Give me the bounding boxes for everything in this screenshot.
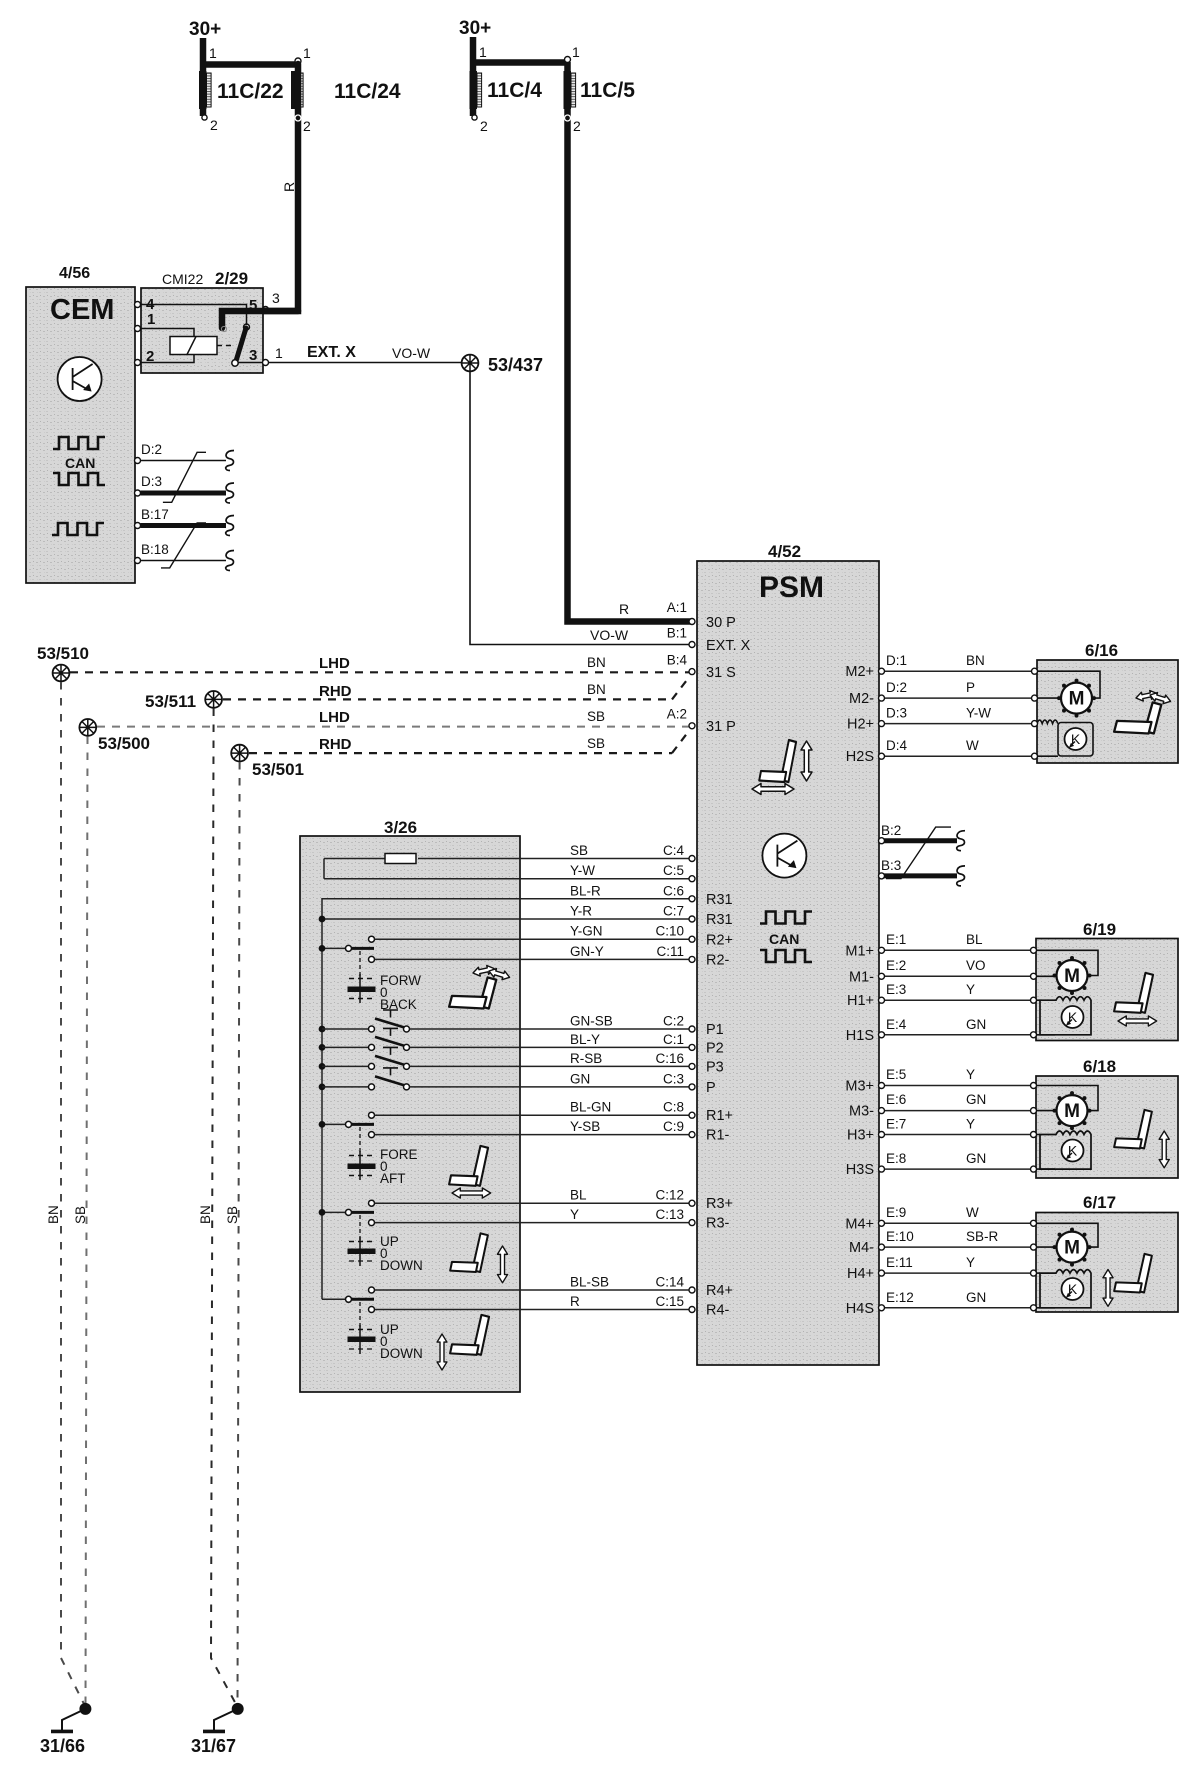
svg-text:EXT. X: EXT. X [706, 638, 751, 654]
relay pin 3 circle on right edge [263, 360, 269, 366]
svg-text:B:17: B:17 [141, 507, 169, 522]
svg-text:E:2: E:2 [886, 958, 906, 973]
tilt switch contact C:14 [369, 1287, 375, 1293]
svg-text:E:11: E:11 [886, 1255, 913, 1270]
wire LHD BN from splice 53/510 to PSM pin B:4 (dashed) [70, 671, 689, 673]
wire RHD BN from splice 53/511 toward PSM pin B:4 (dashed) [223, 676, 690, 699]
resistor inside 3/26 [385, 854, 416, 864]
pin 1 of fuse 11C/5 [565, 57, 571, 63]
thermal cut-out K of 6/17 [1040, 1270, 1091, 1308]
wire from CEM D:3 (thick stub) [141, 491, 227, 496]
svg-text:C:7: C:7 [663, 904, 684, 919]
svg-text:53/510: 53/510 [37, 644, 89, 663]
wire break curl D:2 [226, 451, 234, 471]
svg-text:30+: 30+ [459, 18, 491, 39]
wire LHD SB from splice 53/500 to PSM pin A:2 (dashed, faint) [97, 726, 689, 728]
wire C:5 colour Y-W [324, 859, 689, 879]
svg-text:D:4: D:4 [886, 738, 908, 753]
svg-text:A:1: A:1 [667, 600, 687, 615]
svg-text:2/29: 2/29 [215, 269, 248, 288]
wires PSM to motor 6/19: E:1 BL, E:2 VO, E:3 Y, E:4 GN [885, 950, 1031, 1035]
svg-text:11C/22: 11C/22 [217, 80, 284, 103]
wire from fuse 11C/24 down to relay 2/29, colour R [222, 64, 298, 328]
svg-text:C:1: C:1 [663, 1032, 684, 1047]
svg-text:GN: GN [966, 1017, 986, 1032]
svg-text:GN: GN [966, 1151, 986, 1166]
svg-text:C:4: C:4 [663, 843, 685, 858]
svg-text:B:3: B:3 [881, 858, 901, 873]
svg-text:Y: Y [966, 982, 975, 997]
wire 30+ feed down to fuses 11C/4 and 11C/5 [470, 37, 568, 116]
svg-text:53/437: 53/437 [488, 355, 543, 375]
wire C:2 colour GN-SB [410, 1028, 690, 1030]
fuse 11C/22 [199, 71, 207, 109]
wires PSM to motor 6/17: E:9 W, E:10 SB-R, E:11 Y, E:12 GN [885, 1223, 1031, 1308]
seat icon of 6/18 with up/down arrow [1114, 1110, 1152, 1149]
pin 2 of fuse 11C/5 [565, 115, 571, 121]
svg-text:CAN: CAN [65, 455, 95, 471]
svg-text:M1+: M1+ [845, 944, 874, 960]
svg-text:BL-GN: BL-GN [570, 1100, 611, 1115]
svg-text:H1+: H1+ [847, 993, 874, 1009]
PSM left pin circles (C rows) [689, 856, 695, 1313]
svg-text:E:10: E:10 [886, 1229, 914, 1244]
fore/aft switch contact C:9 [369, 1132, 375, 1138]
svg-text:GN: GN [966, 1092, 986, 1107]
svg-text:C:16: C:16 [655, 1051, 684, 1066]
CEM pin D:2 [135, 458, 141, 464]
tilt switch contact C:15 [369, 1307, 375, 1313]
svg-text:M1-: M1- [849, 970, 874, 986]
wire C:7 colour Y-R [322, 918, 689, 920]
tilt selector UP/0/DOWN [359, 1302, 361, 1330]
svg-text:P3: P3 [706, 1060, 724, 1076]
svg-text:1: 1 [303, 45, 311, 61]
svg-text:M4-: M4- [849, 1240, 874, 1256]
svg-text:VO-W: VO-W [392, 345, 431, 361]
svg-text:E:4: E:4 [886, 1017, 907, 1032]
svg-text:B:4: B:4 [667, 653, 688, 668]
svg-text:4/56: 4/56 [59, 265, 90, 282]
svg-text:R4+: R4+ [706, 1283, 733, 1299]
seat icon with up/down arrow (tilt) [450, 1315, 489, 1355]
svg-text:R1-: R1- [706, 1128, 730, 1144]
svg-text:1: 1 [572, 44, 580, 60]
svg-text:6/19: 6/19 [1083, 920, 1116, 939]
transistor symbol inside CEM [58, 357, 102, 401]
svg-text:53/511: 53/511 [145, 692, 196, 711]
svg-text:E:5: E:5 [886, 1067, 906, 1082]
CEM pin B:17 [135, 523, 141, 529]
svg-text:GN-Y: GN-Y [570, 944, 604, 959]
svg-text:H3+: H3+ [847, 1128, 874, 1144]
wire SB down from splice 53/500 to ground 31/66 (dashed, faint) [86, 737, 88, 1707]
thermal cut-out K of 6/16 [1058, 723, 1093, 757]
wire C:8 colour BL-GN [375, 1114, 690, 1116]
fore/aft selector FORE/0/AFT [359, 1127, 361, 1155]
pin 2 of fuse 11C/4 [472, 115, 477, 120]
svg-text:1: 1 [209, 45, 217, 61]
svg-text:1: 1 [147, 311, 155, 328]
splice 53/501 [231, 745, 248, 762]
svg-text:C:14: C:14 [655, 1275, 684, 1290]
pin 2 of fuse 11C/22 [202, 115, 207, 120]
svg-text:C:8: C:8 [663, 1100, 684, 1115]
svg-text:2: 2 [210, 117, 218, 133]
relay switch arm [236, 328, 246, 361]
svg-text:3/26: 3/26 [384, 818, 417, 837]
svg-text:R31: R31 [706, 912, 733, 928]
svg-text:H4+: H4+ [847, 1266, 874, 1282]
wire C:9 colour Y-SB [375, 1134, 690, 1136]
PSM CAN symbol [760, 912, 812, 924]
svg-text:Y: Y [966, 1067, 975, 1082]
svg-text:W: W [966, 1205, 979, 1220]
wire from CEM B:18 (thin stub) [141, 560, 227, 562]
svg-text:R3+: R3+ [706, 1196, 733, 1212]
svg-text:BL: BL [570, 1188, 587, 1203]
wire C:4 colour SB [324, 858, 689, 860]
relay internal wire pin 1 to coil [138, 329, 195, 337]
wire C:11 colour GN-Y [375, 958, 690, 960]
break slash over B:2/B:3 [886, 827, 951, 879]
svg-text:CEM: CEM [50, 294, 114, 326]
svg-text:31 P: 31 P [706, 719, 736, 735]
height switch common feed [322, 1211, 345, 1213]
CEM pin D:3 [135, 490, 141, 496]
svg-text:R3-: R3- [706, 1216, 730, 1232]
svg-text:6/17: 6/17 [1083, 1193, 1116, 1212]
wire break curl D:3 [226, 483, 234, 503]
seat icon with fore/aft arrow [449, 1146, 488, 1186]
break slash over D:2/D:3 [163, 452, 206, 502]
pin circles 6/19 [879, 947, 1037, 1038]
svg-text:GN-SB: GN-SB [570, 1014, 613, 1029]
wire C:13 colour Y [375, 1222, 690, 1224]
svg-text:AFT: AFT [380, 1171, 406, 1186]
svg-text:BN: BN [198, 1205, 213, 1224]
svg-text:PSM: PSM [759, 571, 824, 604]
wire C:10 colour Y-GN [375, 938, 690, 940]
wire 30+ feed down to fuses 11C/22 and 11C/24 [200, 38, 298, 116]
svg-text:30 P: 30 P [706, 615, 736, 631]
seat icon with up/down arrow [450, 1233, 488, 1272]
wire break curl B:17 [226, 516, 234, 536]
recline switch common feed [322, 947, 345, 949]
svg-text:P: P [966, 680, 975, 695]
svg-text:3: 3 [272, 290, 280, 306]
svg-text:R31: R31 [706, 892, 733, 908]
svg-text:6/16: 6/16 [1085, 641, 1118, 660]
svg-text:Y: Y [570, 1207, 579, 1222]
recline switch contact C:11 [369, 956, 375, 962]
svg-text:C:11: C:11 [656, 944, 684, 959]
svg-text:30+: 30+ [189, 19, 221, 40]
svg-text:Y-R: Y-R [570, 904, 592, 919]
svg-text:C:2: C:2 [663, 1014, 684, 1029]
motor M of 6/18 [1053, 1091, 1092, 1130]
svg-text:Y-SB: Y-SB [570, 1119, 600, 1134]
svg-text:R-SB: R-SB [570, 1051, 602, 1066]
svg-text:D:2: D:2 [141, 442, 162, 457]
wire from CEM B:17 (thick stub) [141, 523, 227, 528]
svg-text:DOWN: DOWN [380, 1258, 423, 1273]
svg-text:11C/4: 11C/4 [487, 79, 542, 102]
CAN symbol inside CEM [53, 437, 105, 449]
svg-text:6/18: 6/18 [1083, 1057, 1116, 1076]
svg-text:BL-SB: BL-SB [570, 1275, 609, 1290]
svg-text:B:1: B:1 [667, 626, 687, 641]
relay internal wire from pin 4 to switch pivot [138, 305, 247, 326]
thermal wavy element of 6/17 [1036, 1272, 1040, 1274]
svg-text:C:13: C:13 [655, 1207, 684, 1222]
svg-text:P: P [706, 1080, 716, 1096]
svg-text:E:1: E:1 [886, 932, 906, 947]
svg-text:R2+: R2+ [706, 933, 733, 949]
splice 53/437 [462, 355, 479, 372]
svg-text:CMI22: CMI22 [162, 271, 203, 287]
wire from splice 53/437 down to PSM pin B:1, colour VO-W [470, 372, 689, 645]
wire break curl B:18 [226, 551, 234, 571]
svg-text:SB: SB [587, 736, 605, 751]
recline switch contact C:10 [369, 936, 375, 942]
svg-text:11C/5: 11C/5 [580, 79, 635, 102]
svg-text:D:1: D:1 [886, 653, 907, 668]
svg-text:GN: GN [966, 1290, 986, 1305]
ground 31/66 [79, 1703, 91, 1715]
svg-text:2: 2 [303, 118, 311, 134]
svg-text:E:12: E:12 [886, 1290, 914, 1305]
svg-text:1: 1 [275, 345, 283, 361]
PSM left pin circles upper [689, 619, 695, 625]
svg-text:SB: SB [225, 1206, 240, 1224]
splice 53/500 [79, 719, 96, 736]
wire SB down from splice 53/501 to ground 31/67 (dashed) [238, 762, 240, 1706]
wire RHD SB from splice 53/501 toward PSM pin A:2 (dashed) [249, 730, 690, 754]
svg-text:P2: P2 [706, 1041, 724, 1057]
thermal wavy element of 6/18 [1036, 1134, 1040, 1136]
relay internal wire pin 2 to coil [138, 355, 195, 363]
PSM transistor symbol [762, 834, 806, 878]
ground 31/67 [232, 1703, 244, 1715]
svg-text:1: 1 [479, 44, 487, 60]
svg-text:2: 2 [146, 348, 154, 365]
break slash over B:17/B:18 [161, 523, 206, 568]
svg-text:RHD: RHD [319, 683, 352, 700]
motor M of 6/16 [1057, 679, 1096, 718]
seat icon of 6/17 with up/down arrow [1114, 1254, 1152, 1293]
height switch contact C:12 [369, 1200, 375, 1206]
wire EXT. X from relay pin 3 to splice 53/437, colour VO-W [269, 362, 462, 364]
PSM seat icon with arrows [759, 740, 796, 782]
pushbutton switch P [319, 1084, 326, 1091]
svg-text:53/500: 53/500 [98, 734, 150, 753]
svg-text:LHD: LHD [319, 655, 350, 672]
wire C:1 colour BL-Y [410, 1046, 690, 1048]
svg-text:M3+: M3+ [845, 1079, 874, 1095]
relay pin circles on left edge (shared with CEM) [135, 302, 141, 308]
svg-text:VO-W: VO-W [590, 627, 629, 643]
svg-text:11C/24: 11C/24 [334, 80, 401, 103]
relay 2/29 box [141, 288, 263, 373]
relay coil [170, 337, 217, 355]
wire BN down from splice 53/510 to ground 31/66 (dashed) [61, 682, 85, 1706]
svg-text:D:2: D:2 [886, 680, 907, 695]
svg-text:R4-: R4- [706, 1303, 730, 1319]
svg-text:Y-GN: Y-GN [570, 924, 603, 939]
svg-text:BL-R: BL-R [570, 883, 601, 898]
motor M of 6/19 [1053, 956, 1092, 995]
svg-text:R1+: R1+ [706, 1108, 733, 1124]
svg-text:H2S: H2S [846, 749, 874, 765]
svg-text:SB: SB [587, 709, 605, 724]
svg-text:C:12: C:12 [655, 1188, 684, 1203]
thermal cut-out K of 6/18 [1040, 1131, 1091, 1169]
svg-text:GN: GN [570, 1071, 590, 1086]
svg-text:DOWN: DOWN [380, 1346, 423, 1361]
svg-text:E:7: E:7 [886, 1117, 906, 1132]
wire C:6 colour BL-R and switch supply bus [322, 899, 689, 1300]
svg-text:H3S: H3S [846, 1162, 874, 1178]
wire C:15 colour R [375, 1309, 690, 1311]
svg-text:31 S: 31 S [706, 665, 736, 681]
svg-text:CAN: CAN [769, 931, 799, 947]
svg-text:E:3: E:3 [886, 982, 906, 997]
svg-text:P1: P1 [706, 1022, 724, 1038]
thick feed stub inside relay (from fuse 11C/24) [222, 311, 298, 328]
svg-text:C:3: C:3 [663, 1071, 684, 1086]
svg-text:LHD: LHD [319, 709, 350, 726]
svg-text:RHD: RHD [319, 736, 352, 753]
svg-text:E:9: E:9 [886, 1205, 906, 1220]
svg-text:C:5: C:5 [663, 863, 684, 878]
svg-text:Y-W: Y-W [570, 863, 595, 878]
recline switch blade [351, 947, 374, 950]
wire C:12 colour BL [375, 1202, 690, 1204]
svg-text:5: 5 [249, 297, 257, 314]
wire C:16 colour R-SB [410, 1065, 690, 1067]
motor M of 6/17 [1053, 1228, 1092, 1267]
svg-text:C:10: C:10 [655, 924, 684, 939]
pushbutton switch P2 [319, 1044, 326, 1051]
svg-text:W: W [966, 738, 979, 753]
wire from fuse 11C/5 down to PSM pin A:1, colour R [568, 62, 693, 622]
CEM pin B:18 [135, 558, 141, 564]
svg-text:D:3: D:3 [141, 474, 162, 489]
thermal cut-out K of 6/19 [1040, 997, 1091, 1035]
square wave symbol inside CEM (lower) [52, 523, 104, 535]
tilt switch common feed [322, 1298, 345, 1300]
pin circles 6/18 [879, 1083, 1037, 1173]
svg-text:SB: SB [73, 1206, 88, 1224]
svg-text:BN: BN [587, 682, 606, 697]
svg-text:2: 2 [573, 118, 581, 134]
svg-text:2: 2 [480, 118, 488, 134]
svg-text:M4+: M4+ [845, 1217, 874, 1233]
svg-text:SB-R: SB-R [966, 1229, 999, 1244]
pin 1 of fuse 11C/24 [295, 58, 301, 64]
svg-text:C:9: C:9 [663, 1119, 684, 1134]
svg-text:C:6: C:6 [663, 883, 684, 898]
wires PSM to motor 6/18: E:5 Y, E:6 GN, E:7 Y, E:8 GN [885, 1086, 1031, 1170]
svg-text:BN: BN [587, 655, 606, 670]
svg-text:Y: Y [966, 1255, 975, 1270]
svg-text:VO: VO [966, 958, 986, 973]
recline selector FORW/0/BACK [349, 978, 374, 980]
svg-text:E:8: E:8 [886, 1151, 906, 1166]
wire C:14 colour BL-SB [375, 1289, 690, 1291]
svg-text:Y-W: Y-W [966, 706, 991, 721]
svg-text:BL-Y: BL-Y [570, 1032, 600, 1047]
svg-text:R2-: R2- [706, 953, 730, 969]
fore/aft switch common feed [322, 1123, 345, 1125]
wire BN down from splice 53/511 to ground 31/67 (dashed) [211, 709, 237, 1707]
svg-text:53/501: 53/501 [252, 760, 304, 779]
fore/aft switch contact C:8 [369, 1112, 375, 1118]
recline switch actuator dashed link [359, 951, 361, 978]
svg-text:R: R [619, 601, 629, 617]
wires PSM to motor 6/16: D:1 BN, D:2 P, D:3 Y-W, D:4 W [885, 671, 1032, 756]
svg-text:M2+: M2+ [845, 664, 874, 680]
svg-text:31/67: 31/67 [191, 1736, 236, 1756]
thermal wavy element of 6/19 [1036, 999, 1040, 1001]
svg-text:BL: BL [966, 932, 983, 947]
svg-text:R: R [570, 1294, 580, 1309]
svg-text:B:2: B:2 [881, 823, 901, 838]
height selector UP/0/DOWN [359, 1215, 361, 1242]
pushbutton switch P1 [319, 1026, 326, 1033]
svg-text:R: R [281, 182, 297, 192]
svg-text:E:6: E:6 [886, 1092, 906, 1107]
dashed actuator link coil to switch arm [217, 345, 234, 347]
svg-text:BN: BN [46, 1205, 61, 1224]
svg-text:4/52: 4/52 [768, 542, 801, 561]
fuse 11C/4 [470, 71, 478, 109]
svg-text:H4S: H4S [846, 1301, 874, 1317]
seat icon of 6/16 with recline arrows [1114, 702, 1161, 733]
svg-text:A:2: A:2 [667, 707, 687, 722]
svg-text:H1S: H1S [846, 1028, 874, 1044]
fuse 11C/24 [291, 71, 299, 109]
svg-text:3: 3 [249, 347, 257, 364]
pin 2 of fuse 11C/24 [295, 115, 301, 121]
fuse 11C/5 [564, 71, 572, 109]
svg-text:M3-: M3- [849, 1104, 874, 1120]
thermal wavy element of 6/16 [1037, 720, 1058, 724]
pin circles 6/17 [879, 1220, 1037, 1311]
svg-text:Y: Y [966, 1117, 975, 1132]
relay internal wire switch to pin 3 [238, 362, 265, 364]
relay pin 5 circle on right edge [263, 307, 269, 313]
svg-text:H2+: H2+ [847, 717, 874, 733]
seat icon (backrest recline) with fore/back arrows [449, 977, 496, 1008]
pin circles 6/16 [879, 668, 1038, 759]
height switch contact C:13 [369, 1220, 375, 1226]
svg-text:EXT. X: EXT. X [307, 344, 356, 361]
svg-text:31/66: 31/66 [40, 1736, 85, 1756]
wire C:3 colour GN [410, 1086, 690, 1088]
pushbutton switch P3 [319, 1063, 326, 1070]
wire from CEM D:2 (thin stub) [141, 460, 227, 462]
svg-text:SB: SB [570, 843, 588, 858]
svg-text:C:15: C:15 [655, 1294, 684, 1309]
svg-text:BN: BN [966, 653, 985, 668]
svg-text:B:18: B:18 [141, 542, 169, 557]
svg-text:M2-: M2- [849, 691, 874, 707]
seat icon of 6/19 with fore/aft arrow [1114, 973, 1153, 1013]
svg-text:D:3: D:3 [886, 706, 907, 721]
